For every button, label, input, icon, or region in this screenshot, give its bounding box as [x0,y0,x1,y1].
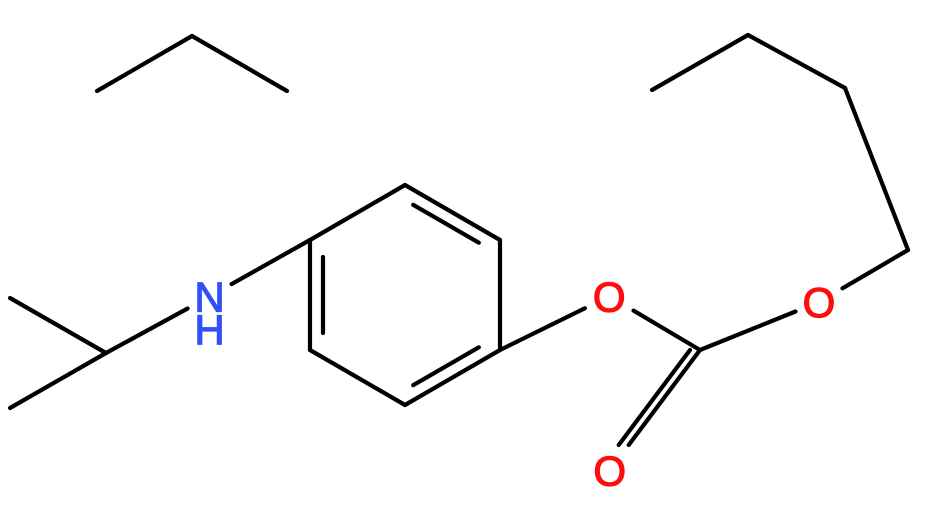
bond CH-CH3 upper [10,298,106,353]
svg-text:O: O [593,447,626,494]
svg-text:O: O [803,279,836,326]
double bond C=O3 line 1 [629,350,700,445]
benzene inner aromatic line [413,205,479,243]
svg-text:H: H [194,306,224,353]
benzene edge BR [405,350,500,405]
bond C ester-O2 [700,312,796,351]
wire: floating fragment C-C right [192,36,287,91]
benzene edge R [498,240,502,350]
double bond C=O3 line 2 [619,350,690,445]
benzene edge TR [405,185,500,240]
bond N-CH isopropyl [106,309,188,354]
benzene edge TL [310,185,405,240]
bond CH2-CH2 steep [845,88,908,250]
bond CH-CH3 lower [10,353,106,408]
svg-text:O: O [593,273,626,320]
benzene inner aromatic line [413,347,479,385]
bond O1-C ester [634,311,701,350]
bond CH2-CH3 caret left [652,35,748,90]
bond aryl-O1 [500,308,585,350]
benzene edge BL [310,350,405,405]
benzene inner aromatic line [321,257,325,333]
benzene edge L [308,240,312,350]
bond N-aryl [232,240,310,284]
wire: floating fragment C-C left [97,36,192,91]
bond CH2-CH2 caret right [748,35,845,88]
bond O2-CH2 [843,250,909,288]
